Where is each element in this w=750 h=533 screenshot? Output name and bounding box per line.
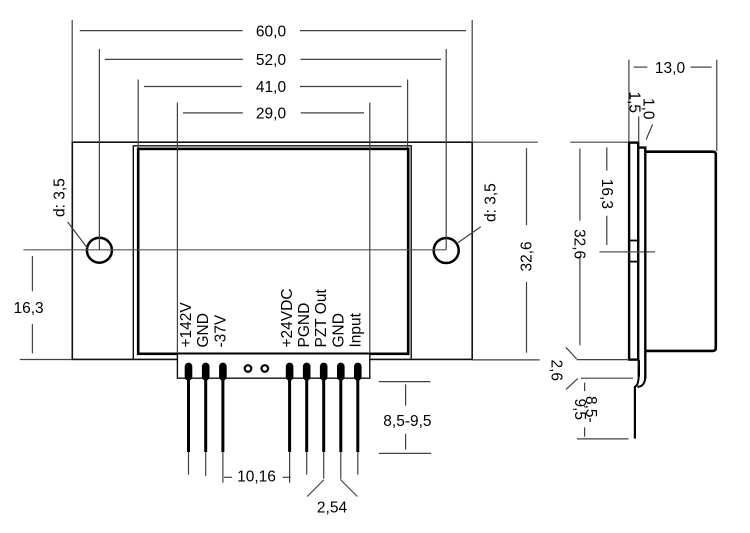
dimension 13,0 [629,60,717,152]
flange plate outline [72,142,472,359]
dimension 16,3 side [606,147,608,245]
dimension 2,54 [307,480,357,497]
dimension 2,6 refs [566,347,633,389]
pin 3 [219,363,227,483]
svg-text:GND: GND [195,313,212,347]
svg-text:16,3: 16,3 [598,179,615,209]
svg-text:10,16: 10,16 [237,469,276,486]
dimension 52,0 [99,49,446,250]
side hole hidden edge tick top [628,240,640,242]
side centerline [599,251,655,253]
side flange plate [629,143,638,360]
svg-text:d: 3,5: d: 3,5 [52,178,69,217]
side hole hidden edge tick bottom [628,261,640,263]
dimension 41,0 [138,80,407,148]
dimension 8,5-9,5 front [379,382,431,454]
svg-text:32,6: 32,6 [571,229,588,259]
pin 4 [286,363,294,483]
leader 1,5 [638,117,640,143]
pin 5 [303,363,311,475]
side flange top extension [570,141,628,143]
side pin carrier plate [638,148,645,379]
svg-text:PGND: PGND [296,303,313,348]
pin 8 [354,363,362,475]
svg-text:32,6: 32,6 [519,241,536,271]
leader d:3,5 left [68,222,88,248]
pin 6 [320,363,328,479]
leader 1,0 [646,124,653,139]
svg-text:29,0: 29,0 [256,106,287,123]
pin 7 [337,363,345,480]
index circle 1 on header [245,365,252,372]
svg-text:41,0: 41,0 [256,79,287,96]
dimension 29,0 [177,103,369,354]
svg-text:1,0: 1,0 [640,98,657,120]
pin header block [177,355,369,379]
svg-text:8,5-9,5: 8,5-9,5 [383,413,431,430]
svg-text:60,0: 60,0 [256,23,287,40]
dimension 32,6 side [579,149,581,346]
side pin wire [634,386,636,439]
lip plate edges [133,146,411,359]
svg-text:d: 3,5: d: 3,5 [483,183,500,222]
pin 1 [185,363,193,475]
dimension 16,3 left [20,256,73,360]
mounting hole left [87,238,112,263]
svg-text:16,3: 16,3 [14,300,44,317]
leader d:3,5 right [458,227,481,243]
pin 2 [202,363,210,476]
dimension 8,5-9,5 side [577,383,629,439]
svg-text:52,0: 52,0 [256,52,287,69]
svg-text:PZT Out: PZT Out [313,289,330,348]
index circle 2 on header [262,365,269,372]
svg-text:GND: GND [330,313,347,347]
svg-text:-37V: -37V [212,314,229,347]
svg-text:2,54: 2,54 [317,500,348,517]
body outline (thick) [138,149,408,354]
dimension 32,6 front right [472,142,540,360]
svg-text:2,6: 2,6 [548,360,565,382]
svg-text:+142V: +142V [178,302,195,348]
svg-text:+24VDC: +24VDC [279,288,296,347]
side body outline [646,152,716,351]
dimension 60,0 [72,20,472,142]
hole centerline [23,249,446,251]
mounting hole right [434,238,459,263]
side pin hook [635,375,645,387]
svg-text:9,5: 9,5 [571,399,588,421]
svg-text:Input: Input [347,312,364,347]
svg-text:13,0: 13,0 [655,60,686,77]
dimension 10,16 [224,476,291,478]
